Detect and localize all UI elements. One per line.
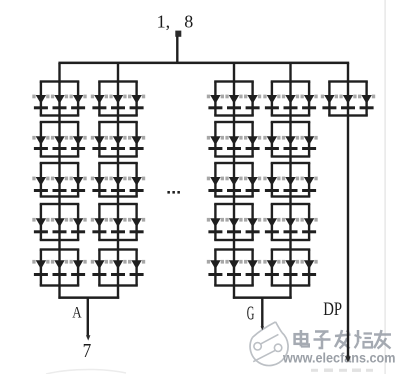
LED G1 row 1 diode 3 [244,95,261,110]
LED G2 row 5 diode 2 [282,260,299,276]
LED A2 row 5 diode 3 [128,260,145,276]
LED G2 row 5 diode 3 [301,260,318,276]
watermark: faint arc bottom-left [46,369,126,374]
ellipsis: more segment columns [167,191,180,194]
wire: parallel cell frame A1 row 5 [40,248,80,286]
LED A1 row 1 diode 3 [70,95,87,110]
wire: parallel cell frame A2 row 5 [98,248,138,286]
wire: common anode bus [58,62,349,65]
wire: parallel cell frame G2 row 2 [271,121,311,158]
wire: segment A output lead [87,298,89,338]
wire: parallel cell frame A1 row 1 [40,80,80,116]
LED A2 row 1 diode 2 [109,95,126,110]
LED A1 row 3 diode 3 [70,177,87,192]
wire: parallel cell frame G1 row 3 [214,162,254,198]
LED G1 row 3 diode 1 [207,177,224,192]
wire: parallel cell frame A1 row 3 [40,162,80,198]
svg-text:www.elecfans.com: www.elecfans.com [282,350,395,365]
wire: bus drop to column DP [347,63,349,83]
wire: parallel cell frame G1 row 1 [214,80,254,116]
LED G2 row 4 diode 3 [301,218,318,233]
LED G2 row 2 diode 1 [263,136,280,150]
pin arrow: segment G [261,326,264,330]
LED A2 row 2 diode 1 [91,136,108,150]
label: segment A [72,304,82,321]
LED G1 row 4 diode 2 [225,218,242,233]
LED A1 row 5 diode 2 [51,260,68,276]
wire: parallel cell frame A2 row 2 [98,121,138,158]
LED A2 row 4 diode 1 [91,218,108,233]
LED A1 row 2 diode 2 [51,136,68,150]
wire: feed from pins 1,8 down to anode bus [176,36,178,63]
wire: parallel cell frame A2 row 1 [98,80,138,116]
LED G2 row 4 diode 1 [263,218,280,233]
wire: parallel cell frame G1 row 4 [214,203,254,241]
wire: parallel cell frame A1 row 2 [40,121,80,158]
LED A2 row 1 diode 3 [128,95,145,110]
LED G2 row 2 diode 3 [301,136,318,150]
LED G1 row 2 diode 2 [225,136,242,150]
LED A1 row 3 diode 2 [51,177,68,192]
wire: parallel cell frame A1 row 4 [40,203,80,241]
watermark: 电子发烧友 text [295,330,391,349]
LED A1 row 1 diode 2 [51,95,68,110]
label: segment G [247,302,255,324]
LED A1 row 4 diode 2 [51,218,68,233]
wire: segment G output lead [261,298,263,328]
wire: series rail column A1 [58,82,60,286]
wire: A column 1 stub to join bar [58,286,60,299]
LED A2 row 2 diode 2 [109,136,126,150]
wire: G column 1 stub to join bar [233,286,235,299]
LED A1 row 3 diode 1 [32,177,49,192]
LED DP row 1 diode 3 [358,95,375,110]
LED DP row 1 diode 2 [339,95,356,110]
LED A2 row 3 diode 2 [109,177,126,192]
wire: series rail column A2 [117,82,119,286]
LED G2 row 5 diode 1 [263,260,280,276]
wire: A column 2 stub to join bar [117,286,119,299]
LED G2 row 2 diode 2 [282,136,299,150]
wire: parallel cell frame A2 row 3 [98,162,138,198]
LED G2 row 1 diode 3 [301,95,318,110]
watermark: faint bottom fragments [311,369,373,372]
wire: series rail column G2 [289,82,291,286]
LED A1 row 2 diode 3 [70,136,87,150]
wire: parallel cell frame G2 row 4 [271,203,311,241]
LED G1 row 5 diode 1 [207,260,224,276]
wire: series rail column G1 [233,82,235,286]
svg-text:8: 8 [184,11,193,31]
LED G1 row 3 diode 2 [225,177,242,192]
LED A1 row 4 diode 3 [70,218,87,233]
svg-text:A: A [72,304,82,321]
label: common anode pins 1, 8 [157,11,194,31]
LED G1 row 1 diode 1 [207,95,224,110]
wire: G column 2 stub to join bar [289,286,291,299]
LED G2 row 3 diode 2 [282,177,299,192]
node: anode feed terminal (pins 1,8) [175,31,181,37]
svg-text:DP: DP [323,299,342,320]
LED A2 row 3 diode 1 [91,177,108,192]
svg-text:7: 7 [83,340,92,362]
LED A2 row 2 diode 3 [128,136,145,150]
LED A1 row 5 diode 3 [70,260,87,276]
LED A1 row 1 diode 1 [32,95,49,110]
LED G2 row 1 diode 1 [263,95,280,110]
watermark: faint page rule at right [384,0,385,374]
LED G2 row 4 diode 2 [282,218,299,233]
wire: bus drop to column A2 [117,63,119,83]
LED G2 row 3 diode 3 [301,177,318,192]
wire: parallel cell frame A2 row 4 [98,203,138,241]
LED A1 row 5 diode 1 [32,260,49,276]
wire: parallel cell frame G2 row 3 [271,162,311,198]
LED G1 row 3 diode 3 [244,177,261,192]
LED A1 row 4 diode 1 [32,218,49,233]
watermark: www.elecfans.com [282,350,395,365]
pin arrow: segment A to pin 7 [86,335,90,340]
LED A2 row 3 diode 3 [128,177,145,192]
wire: bus drop to column G1 [233,63,235,83]
LED A2 row 5 diode 1 [91,260,108,276]
svg-text:1,: 1, [157,11,171,31]
LED G1 row 4 diode 1 [207,218,224,233]
watermark: elecfans logo [250,322,288,366]
wire: parallel cell frame DP row 1 [328,80,368,116]
pin arrow: DP lead [345,356,351,362]
wire: series rail column DP (to pin) [347,82,349,360]
LED G1 row 2 diode 3 [244,136,261,150]
label: pin 7 [83,340,92,362]
wire: parallel cell frame G1 row 5 [214,248,254,286]
wire: parallel cell frame G1 row 2 [214,121,254,158]
wire: parallel cell frame G2 row 1 [271,80,311,116]
wire: A join bar [58,296,119,299]
LED G1 row 1 diode 2 [225,95,242,110]
svg-text:G: G [247,302,255,324]
LED G1 row 5 diode 2 [225,260,242,276]
LED A2 row 5 diode 2 [109,260,126,276]
LED G2 row 1 diode 2 [282,95,299,110]
LED G1 row 2 diode 1 [207,136,224,150]
wire: bus drop to column A1 [58,63,60,83]
LED DP row 1 diode 1 [321,95,338,110]
wire: bus drop to column G2 [289,63,291,83]
LED G2 row 3 diode 1 [263,177,280,192]
LED A1 row 2 diode 1 [32,136,49,150]
LED A2 row 1 diode 1 [91,95,108,110]
label: DP [323,299,342,320]
LED A2 row 4 diode 3 [128,218,145,233]
wire: parallel cell frame G2 row 5 [271,248,311,286]
LED G1 row 5 diode 3 [244,260,261,276]
LED A2 row 4 diode 2 [109,218,126,233]
LED G1 row 4 diode 3 [244,218,261,233]
wire: G join bar [233,296,292,299]
